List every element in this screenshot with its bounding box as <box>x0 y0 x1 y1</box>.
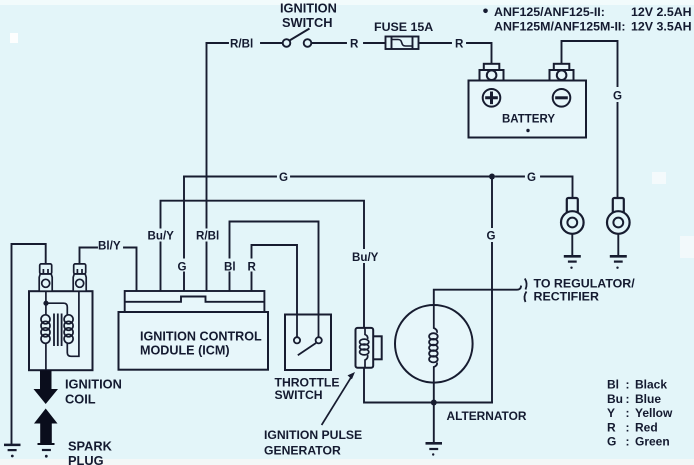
svg-text:G: G <box>607 435 616 449</box>
wire to regulator/rectifier <box>434 287 521 403</box>
ring terminal left <box>561 198 584 256</box>
svg-text:IGNITION: IGNITION <box>280 1 337 16</box>
svg-text:12V 3.5AH: 12V 3.5AH <box>631 20 692 34</box>
wire label G right side <box>611 87 624 103</box>
battery minus terminal mark <box>553 89 571 107</box>
wire R/Bl vertical from ignition switch to ICM pin4 <box>206 43 208 291</box>
svg-text:IGNITION: IGNITION <box>65 377 122 392</box>
wire G horizontal main <box>184 177 573 199</box>
ground left under coil wire <box>4 445 21 458</box>
svg-text:ANF125/ANF125-II:: ANF125/ANF125-II: <box>494 5 605 19</box>
arrow pointing to pulse generator <box>322 378 351 426</box>
svg-text:Bl: Bl <box>607 378 619 392</box>
battery plus terminal mark <box>483 89 501 107</box>
throttle switch contacts <box>294 315 322 356</box>
pulse generator coil <box>360 328 369 368</box>
svg-text:Bl: Bl <box>224 261 236 274</box>
coil bullet connector left <box>39 264 52 291</box>
svg-text::: : <box>626 406 630 420</box>
coil core <box>54 314 62 347</box>
svg-text::: : <box>626 435 630 449</box>
svg-text:GENERATOR: GENERATOR <box>264 443 341 457</box>
coil internals: secondary winding <box>46 291 79 356</box>
svg-text:IGNITION PULSE: IGNITION PULSE <box>264 428 362 442</box>
svg-text:G: G <box>613 90 622 103</box>
ground under right ring terminal <box>610 256 627 269</box>
svg-text:COIL: COIL <box>65 392 96 407</box>
svg-text:BATTERY: BATTERY <box>502 114 555 126</box>
bracket at regulator wire end <box>524 279 526 303</box>
svg-text:R: R <box>607 420 616 434</box>
wire alternator bottom line <box>364 368 492 403</box>
wire alternator ground stem <box>433 403 435 444</box>
wire R from switch to fuse <box>312 42 386 44</box>
svg-text:Bu/Y: Bu/Y <box>352 251 379 264</box>
wire R from fuse to battery + <box>419 43 492 64</box>
wire Bl/Y from ICM pin1 to ignition coil <box>80 248 137 292</box>
svg-text:RECTIFIER: RECTIFIER <box>534 289 599 303</box>
scan artifacts <box>0 0 694 5</box>
ignition coil box T1 <box>29 291 93 370</box>
svg-text:Y: Y <box>607 406 615 420</box>
svg-text:G: G <box>279 171 288 184</box>
ring terminal right <box>607 198 630 256</box>
coil bullet connector right <box>73 264 86 291</box>
legend color codes <box>607 378 673 449</box>
svg-text:Bu/Y: Bu/Y <box>148 230 175 243</box>
ignition pulse generator P1 <box>356 328 382 368</box>
svg-text:Yellow: Yellow <box>635 406 673 420</box>
svg-text:SWITCH: SWITCH <box>275 388 323 402</box>
wire G from battery - up over and down right side <box>562 41 618 198</box>
ignition switch SW1 <box>283 29 312 47</box>
fuse F1 15A <box>386 37 419 50</box>
svg-text:FUSE 15A: FUSE 15A <box>374 20 433 34</box>
wire label G above alternator <box>485 228 498 243</box>
ground under left ring terminal <box>564 256 581 269</box>
throttle switch box <box>285 315 331 371</box>
svg-text:Green: Green <box>635 435 670 449</box>
svg-text:R/Bl: R/Bl <box>230 38 253 51</box>
alternator winding <box>429 304 438 384</box>
battery BAT1 <box>469 64 587 138</box>
ICM main box U1 <box>119 312 269 370</box>
down arrow from coil <box>34 370 59 404</box>
svg-text:R/Bl: R/Bl <box>196 230 219 243</box>
wire G ICM pin3 <box>183 177 185 292</box>
svg-text:PLUG: PLUG <box>68 453 104 465</box>
svg-text:Bl/Y: Bl/Y <box>98 240 121 253</box>
svg-text::: : <box>626 420 630 434</box>
wire Bu/Y from ICM pin2 over to pulse generator <box>161 201 365 328</box>
svg-text:IGNITION CONTROL: IGNITION CONTROL <box>140 330 262 344</box>
svg-text:G: G <box>487 230 496 243</box>
svg-text:G: G <box>527 171 536 184</box>
svg-text::: : <box>626 392 630 406</box>
battery model note <box>483 9 488 14</box>
wire R ICM pin6 to throttle switch <box>252 245 298 337</box>
junction dot alternator bottom <box>431 400 437 406</box>
svg-text:Black: Black <box>635 378 667 392</box>
svg-text:R: R <box>350 38 359 51</box>
svg-text:Red: Red <box>635 420 658 434</box>
svg-text:R: R <box>248 261 257 274</box>
alternator ground <box>426 443 443 455</box>
coil internals: primary winding <box>41 291 50 370</box>
junction dot in coil <box>43 301 48 306</box>
svg-text:ANF125M/ANF125M-II:: ANF125M/ANF125M-II: <box>494 20 626 34</box>
svg-text::: : <box>626 378 630 392</box>
wire coil left terminal to ground <box>12 244 46 444</box>
svg-text:Blue: Blue <box>635 392 661 406</box>
wire label Bu/Y right <box>352 249 379 264</box>
svg-text:SWITCH: SWITCH <box>282 15 332 30</box>
svg-text:G: G <box>178 261 187 274</box>
svg-text:Bu: Bu <box>607 392 623 406</box>
wire Bl ICM pin5 to throttle switch <box>230 222 319 338</box>
svg-text:SPARK: SPARK <box>68 439 113 454</box>
svg-text:MODULE (ICM): MODULE (ICM) <box>140 344 230 358</box>
svg-text:ALTERNATOR: ALTERNATOR <box>447 409 527 423</box>
up arrow spark plug <box>34 409 58 446</box>
wire R/Bl horizontal to ignition switch <box>207 42 283 44</box>
junction dot G line <box>489 174 495 180</box>
wire G vertical to alternator bottom <box>491 177 493 403</box>
svg-text:12V 2.5AH: 12V 2.5AH <box>631 5 692 19</box>
svg-text:TO REGULATOR/: TO REGULATOR/ <box>534 276 636 290</box>
marks under spark plug arrow <box>42 450 51 458</box>
ICM connector strip <box>125 291 265 312</box>
svg-text:R: R <box>455 38 464 51</box>
alternator G1 <box>395 305 473 383</box>
